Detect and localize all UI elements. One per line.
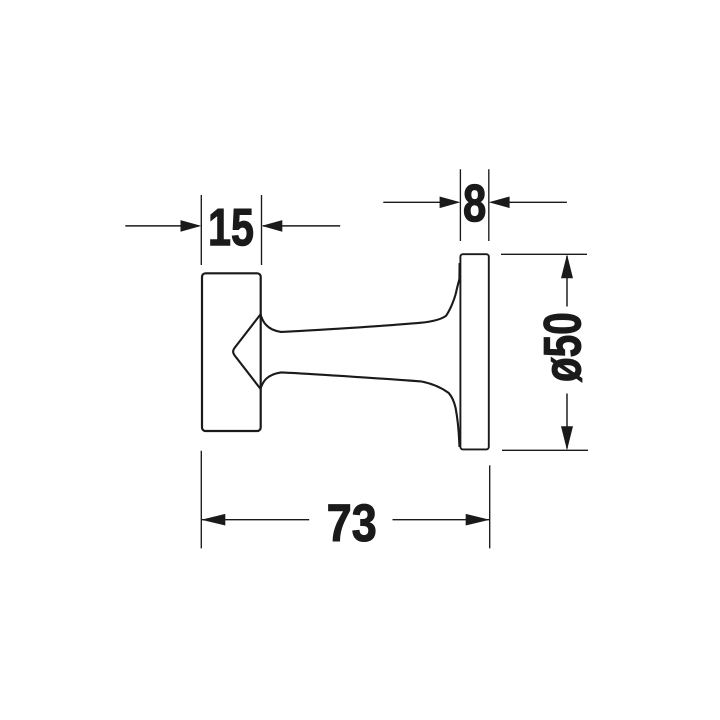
dim text o50 [544,314,582,382]
dim 73: dimension lines [201,519,489,521]
chevron (cone/knob junction) [233,314,260,389]
dim 15: extension lines [201,195,261,265]
dim text 15 [211,209,253,246]
wall flange [460,254,488,449]
knob (front plate) [202,273,261,431]
dim 8: left arrowhead [440,197,461,209]
dim 73: left arrowhead [201,514,225,526]
dim o50: dimension line [566,256,568,449]
stem top outline [261,263,460,332]
dim 8: extension lines [460,169,488,241]
dim o50: extension lines [501,254,588,450]
dim o50: top arrowhead [561,254,573,278]
dim o50: bottom arrowhead [561,426,573,450]
dim 73: right arrowhead [466,514,490,526]
dim 8: dimension lines [383,201,567,203]
dim text 8 [464,184,485,221]
dim 73: extension lines [201,451,489,549]
dim 15: dimension lines [125,225,340,227]
dim 15: left arrowhead [181,220,202,232]
stem bottom outline [261,372,460,447]
dim text 73 [329,504,376,541]
dim 8: right arrowhead [489,197,510,209]
dim 15: right arrowhead [262,220,283,232]
